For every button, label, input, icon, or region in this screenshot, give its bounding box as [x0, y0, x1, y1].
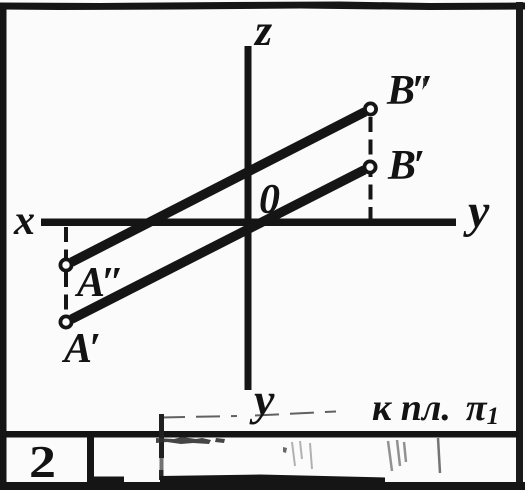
svg-text:2: 2 [29, 437, 56, 487]
whiteout box top edge [161, 412, 336, 418]
stray ink mark [422, 78, 426, 90]
frame bottom bar [0, 482, 525, 490]
point A'' [60, 259, 71, 270]
segment A'B' [72, 170, 365, 319]
projection dashed line A [64, 227, 68, 316]
svg-text:y: y [463, 185, 490, 238]
frame right border [516, 2, 523, 490]
smudge marks in box [156, 437, 225, 444]
frame top border [0, 2, 525, 11]
point B' [364, 161, 375, 172]
svg-text:к пл.π1: к пл.π1 [372, 387, 499, 430]
point B'' [365, 103, 376, 114]
x-y horizontal axis [41, 219, 456, 227]
label 2 [29, 437, 56, 487]
whiteout box left edge [159, 414, 164, 458]
svg-text:A″: A″ [74, 260, 124, 306]
whiteout box bottom edge [160, 475, 385, 485]
title block horizontal line [0, 431, 519, 438]
z axis [245, 46, 252, 390]
point A' [60, 316, 71, 327]
svg-text:B″: B″ [386, 68, 434, 114]
svg-text:B′: B′ [387, 143, 425, 189]
svg-text:z: z [253, 6, 272, 55]
bottom bar bump [92, 477, 124, 485]
svg-text:A′: A′ [61, 326, 101, 372]
segment A''B'' [72, 112, 365, 262]
svg-text:x: x [13, 198, 35, 244]
projection dashed line B [369, 117, 373, 222]
frame left border [0, 3, 7, 490]
title block divider [87, 436, 94, 483]
